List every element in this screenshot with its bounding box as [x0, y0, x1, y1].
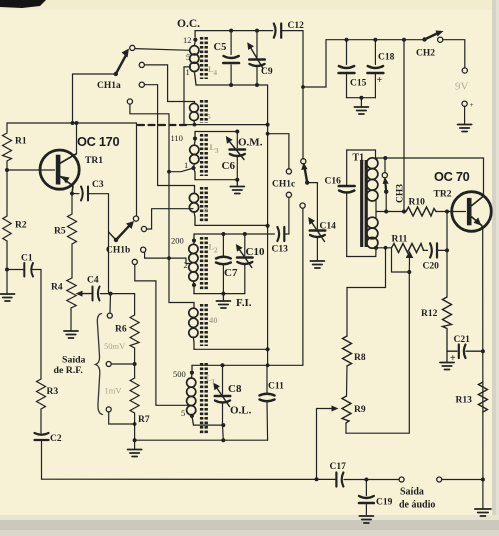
capacitor C1 [23, 263, 25, 277]
RF tap circle 1 [109, 294, 112, 313]
R9 wiper arrow [317, 408, 334, 410]
node C1 left junction [5, 268, 9, 272]
switch CH1c throw contact [301, 159, 306, 164]
wire: C12 vertical down to CH1c [302, 31, 304, 159]
wire: L3 tap1 out [169, 168, 194, 172]
svg-text:500: 500 [173, 369, 186, 379]
capacitor C7 [222, 234, 224, 256]
switch CH2 contact [438, 37, 443, 42]
svg-text:+: + [450, 353, 456, 364]
svg-text:C18: C18 [378, 53, 395, 63]
svg-text:1: 1 [184, 160, 188, 170]
capacitor C15 [346, 40, 348, 65]
wire: collector rail y123 [7, 122, 137, 124]
rail: ground rail y440 [135, 439, 268, 441]
capacitor C4 [92, 287, 94, 301]
svg-text:50mV: 50mV [104, 341, 126, 351]
output terminal left [399, 477, 404, 482]
svg-text:C10: C10 [246, 246, 265, 258]
resistor R9 (pot) [342, 396, 351, 423]
resistor R10 [406, 207, 436, 216]
wire: branch to supply riser [303, 40, 326, 87]
wire: terminal to ground [464, 106, 466, 124]
battery terminal plus [462, 101, 467, 106]
brace Saida de R.F. [96, 314, 103, 415]
coil L3 cell top rail [195, 131, 237, 133]
coil L2 windings [193, 243, 195, 245]
svg-text:C1: C1 [21, 254, 33, 264]
svg-text:C16: C16 [325, 177, 342, 187]
wire: C2 to bottom rail [41, 441, 43, 480]
ground (final) [482, 480, 484, 509]
svg-text:C20: C20 [423, 262, 440, 272]
svg-text:CH1a: CH1a [97, 81, 121, 91]
svg-text:R11: R11 [392, 235, 408, 245]
rail: L4 cell bottom y85 [196, 84, 268, 86]
svg-text:R1: R1 [15, 137, 27, 147]
wire: TR1 collector up to rail [76, 123, 78, 154]
capacitor C17 [335, 473, 337, 487]
RF tap circle 3 (1mV) [106, 407, 111, 412]
capacitor C13 [277, 227, 279, 241]
switch CH1b pivot and arm [109, 232, 117, 240]
switch CH1b contact 2 [141, 247, 146, 252]
wire: C3 right to CH1b pole [89, 194, 109, 294]
svg-text:5: 5 [181, 408, 185, 418]
wire: contact3 to L1 tap [135, 265, 190, 406]
ground (C14) [310, 260, 324, 262]
wire: CH1a throw to L4 tap 5 [135, 49, 190, 51]
transformer T1 secondary winding [367, 217, 378, 228]
wire: R11 left end tie to wiper [392, 248, 410, 272]
wire: wiper down to R9 bottom [346, 272, 409, 433]
switch CH2 pivot and arm [422, 37, 426, 41]
svg-text:5: 5 [186, 52, 190, 62]
output terminal right [437, 477, 442, 482]
wire: C1 to R3 vertical [40, 270, 42, 380]
wire: R8 top jog [347, 248, 386, 336]
svg-text:Saída: Saída [62, 355, 86, 366]
svg-text:C15: C15 [350, 79, 367, 89]
page edge shading right [492, 0, 499, 536]
svg-text:C13: C13 [272, 245, 289, 255]
capacitor C2 [35, 433, 49, 435]
capacitor C10 (variable) [244, 234, 246, 256]
svg-text:3: 3 [215, 147, 219, 155]
capacitor C3 [81, 187, 83, 201]
svg-text:1mV: 1mV [105, 386, 123, 396]
svg-text:R3: R3 [47, 387, 59, 397]
wire: supply riser x404 [403, 40, 405, 212]
coil L4 windings [190, 46, 199, 55]
wire: R10 to TR2 base [436, 211, 466, 213]
capacitor C6 (variable) [236, 132, 238, 148]
capacitor C8 (variable) [222, 365, 224, 394]
switch CH1a throw contact [130, 45, 135, 50]
wire: contact1 to coil8 tap [147, 209, 193, 229]
svg-text:F.I.: F.I. [236, 297, 252, 309]
rail: L2 cell bottom [194, 293, 245, 295]
battery terminal minus [462, 68, 467, 73]
rail: coil40 bottom to bus [194, 348, 268, 350]
rail: coil8 bottom to bus [195, 224, 268, 226]
svg-text:R2: R2 [15, 221, 27, 231]
svg-text:C4: C4 [87, 276, 99, 286]
svg-text:C9: C9 [261, 67, 273, 77]
wire: TR2 emitter down [482, 228, 484, 480]
svg-text:R13: R13 [456, 396, 473, 406]
wire: contact2 to L2 tap 2 [145, 252, 191, 264]
coil L1 cell top rail [192, 364, 303, 366]
ground (battery) [458, 124, 472, 126]
core coil8 [200, 187, 203, 222]
wire: R8 to R9 [346, 366, 349, 396]
coil L4 top rail [194, 31, 196, 37]
transformer T1 primary winding [367, 158, 378, 169]
core L3 [200, 134, 203, 176]
node base divider junction [5, 168, 9, 172]
coil L1 windings [191, 365, 193, 370]
svg-text:TR2: TR2 [434, 190, 452, 200]
ground (C7) [222, 294, 224, 301]
svg-text:O.L.: O.L. [230, 405, 252, 417]
wire: R7 bottom to ground rail [134, 415, 136, 440]
resistor R4 (pot) [67, 278, 76, 310]
svg-text:C2: C2 [50, 434, 62, 444]
switch CH3 contact [384, 160, 386, 173]
resistor R13 [478, 382, 487, 412]
rail: L1 cell bottom [194, 424, 224, 426]
transformer T1 core [360, 160, 363, 247]
capacitor C14 (variable) [310, 229, 325, 232]
capacitor C12 [274, 24, 276, 38]
wire: R2 bottom to C1 node [6, 241, 8, 270]
resistor R2 [3, 170, 11, 241]
switch CH1c contact 2 [286, 192, 291, 197]
svg-text:C14: C14 [320, 222, 337, 232]
ground (R4) [70, 310, 72, 331]
capacitor C19 [365, 480, 367, 496]
wire: R1 bottom to base node [6, 161, 8, 170]
wire: rail corner down to CH1b throw [136, 123, 138, 216]
rail: L3 cell bottom [195, 179, 237, 181]
capacitor C16 [346, 150, 348, 185]
wire: R9 wiper to output rail [316, 409, 318, 480]
wire: contact3 long tap line [130, 104, 194, 302]
switch CH1a pivot [114, 72, 118, 76]
svg-text:O.C.: O.C. [177, 18, 200, 30]
svg-text:2: 2 [184, 260, 188, 270]
svg-text:C19: C19 [376, 498, 393, 508]
ground (R7) [134, 440, 136, 449]
svg-text:5: 5 [207, 112, 211, 121]
wire: C1 right lead [33, 269, 42, 271]
svg-text:R6: R6 [115, 325, 127, 335]
R4 wiper arrow [81, 293, 91, 295]
wire: C13 right to CH1c contact2 [285, 197, 289, 234]
wire: V267 tank bus [267, 85, 269, 365]
wire: R6-R7 link [134, 348, 136, 378]
coil L2 cell top rail [194, 233, 274, 235]
rail: supply y39.7 [326, 39, 424, 41]
switch CH1c arm and pivot [305, 167, 308, 183]
page edge shading bottom [0, 519, 499, 536]
svg-text:de áudio: de áudio [399, 500, 435, 511]
wire: R3 to C2 [40, 411, 42, 433]
svg-text:C21: C21 [454, 335, 471, 345]
wire: T1 collector line y158 [376, 157, 484, 159]
capacitor C20 [424, 249, 428, 251]
resistor R5 [68, 194, 77, 248]
core L4 [200, 37, 203, 79]
wire: L4 tap1 to L5-bottom bus [184, 67, 268, 125]
switch CH1c contact 3 [300, 203, 305, 208]
wire: T1 bottom rail [347, 248, 376, 257]
wire: C1 left lead [7, 269, 23, 271]
ground (below C1 node) [6, 270, 8, 294]
switch CH1b throw contact [133, 216, 138, 221]
transistor TR2 [452, 192, 492, 232]
R11 wiper arrow [406, 251, 414, 258]
svg-text:8: 8 [204, 205, 208, 214]
wire: CH1a common down to rail [73, 74, 116, 123]
wire: R1 top lead [6, 123, 8, 130]
svg-text:Saída: Saída [400, 487, 424, 498]
svg-text:40: 40 [209, 315, 218, 325]
svg-text:+: + [377, 75, 383, 86]
svg-text:R7: R7 [138, 415, 150, 425]
wire: right terminal to emitter line [442, 479, 483, 481]
svg-text:OC 170: OC 170 [77, 134, 119, 149]
svg-text:110: 110 [171, 133, 183, 143]
switch CH3 arm and pivot [385, 181, 386, 192]
svg-text:9V: 9V [455, 81, 469, 93]
svg-text:1: 1 [186, 67, 190, 77]
svg-text:OC 70: OC 70 [434, 169, 470, 184]
wire: emitter lead [72, 193, 79, 195]
node TR1 emitter junction [70, 192, 74, 196]
wire: CH1c pivot to C14 [307, 183, 317, 229]
svg-text:200: 200 [171, 236, 184, 246]
resistor R3 [37, 379, 46, 411]
svg-text:CH3: CH3 [396, 184, 406, 203]
switch CH1a arm [116, 56, 126, 74]
wire: R12 to C21 node [446, 329, 448, 352]
coil 40 (cell) [193, 303, 195, 309]
core L5 [200, 100, 203, 123]
svg-text:CH1b: CH1b [106, 246, 130, 256]
switch CH1b contact 3 [132, 259, 137, 264]
wire: contact2 to coil8 top [145, 85, 195, 186]
svg-text:4: 4 [214, 69, 218, 77]
wire: CH2 to battery [443, 40, 465, 68]
resistor R12 [443, 297, 452, 329]
svg-text:C6: C6 [222, 160, 236, 172]
capacitor C11 [266, 365, 268, 392]
capacitor C21 (electrolytic) [447, 350, 457, 352]
wire: contact3 down to L1 tank rail [302, 208, 304, 365]
core L1 [200, 363, 203, 434]
svg-text:C17: C17 [330, 462, 347, 472]
wire: T1 tap to R10 [376, 211, 406, 213]
coil 8 (cell) [194, 186, 196, 194]
capacitor C5 [230, 31, 232, 55]
switch CH1a contact 2 [139, 82, 144, 87]
wire: base node to TR1 [7, 169, 55, 171]
wire: R9 bottom lead [345, 423, 347, 433]
switch CH1c contact 1 [286, 169, 291, 174]
core coil40 [200, 304, 203, 346]
capacitor C9 (variable) [256, 31, 258, 58]
capacitor C18 (electrolytic) [374, 40, 376, 65]
svg-text:TR1: TR1 [85, 156, 103, 166]
ground (R12/C21) [446, 351, 448, 362]
ground (C6) [236, 180, 238, 186]
rail: C15/C18 bottom [347, 97, 376, 99]
RF tap circle 2 (50mV) [106, 362, 111, 367]
svg-text:T1: T1 [353, 153, 365, 164]
svg-text:R4: R4 [51, 283, 63, 293]
switch CH1a contact 3 [127, 99, 132, 104]
resistor R6 [130, 294, 139, 348]
black corner mark top-left [0, 0, 46, 8]
coil L5 [194, 102, 196, 104]
wire: R11 left link [376, 247, 392, 249]
wire: contact1 to L5 top [145, 65, 195, 102]
svg-text:de R.F.: de R.F. [54, 365, 84, 376]
svg-text:12: 12 [183, 35, 192, 45]
svg-text:R10: R10 [409, 198, 426, 208]
ground (C19) [359, 515, 373, 517]
svg-text:R9: R9 [354, 405, 366, 415]
gang dashed link [138, 124, 186, 126]
rail: audio/output bottom rail [42, 478, 336, 480]
wire: TR2 collector up [483, 158, 485, 196]
svg-text:R12: R12 [421, 309, 438, 319]
svg-text:C7: C7 [224, 267, 238, 279]
resistor R1 [3, 130, 12, 161]
svg-text:C5: C5 [214, 42, 227, 53]
svg-text:C8: C8 [228, 383, 242, 395]
svg-text:R5: R5 [54, 227, 66, 237]
svg-text:CH2: CH2 [416, 49, 435, 59]
svg-text:+: + [470, 100, 474, 109]
wire: R5 to R4 [71, 247, 73, 278]
svg-text:1: 1 [212, 378, 216, 386]
resistor R7 [130, 378, 139, 415]
rail: L4 cell top y30.6 [195, 30, 273, 32]
svg-text:2: 2 [214, 247, 218, 255]
wire: TR2 base line down [446, 212, 448, 298]
transformer T1 top link [347, 150, 376, 158]
ground (C15/C18) [360, 98, 362, 107]
svg-text:C11: C11 [268, 382, 284, 392]
wire: C4 right to attenuator node [100, 293, 134, 295]
svg-text:CH1c: CH1c [272, 180, 295, 190]
resistor R8 [343, 336, 352, 366]
wire: bus branch to CH1c contact1 [268, 134, 289, 169]
svg-text:O.M.: O.M. [238, 137, 263, 149]
coil L3 windings [193, 141, 196, 146]
switch CH1b contact 1 [141, 226, 146, 231]
svg-text:C12: C12 [288, 21, 305, 31]
svg-text:C3: C3 [92, 180, 104, 190]
svg-text:R8: R8 [354, 353, 366, 363]
resistor R11 [392, 244, 424, 253]
switch CH1a contact 1 [139, 62, 144, 67]
core L2 [200, 237, 203, 290]
transistor TR1 [40, 150, 79, 189]
